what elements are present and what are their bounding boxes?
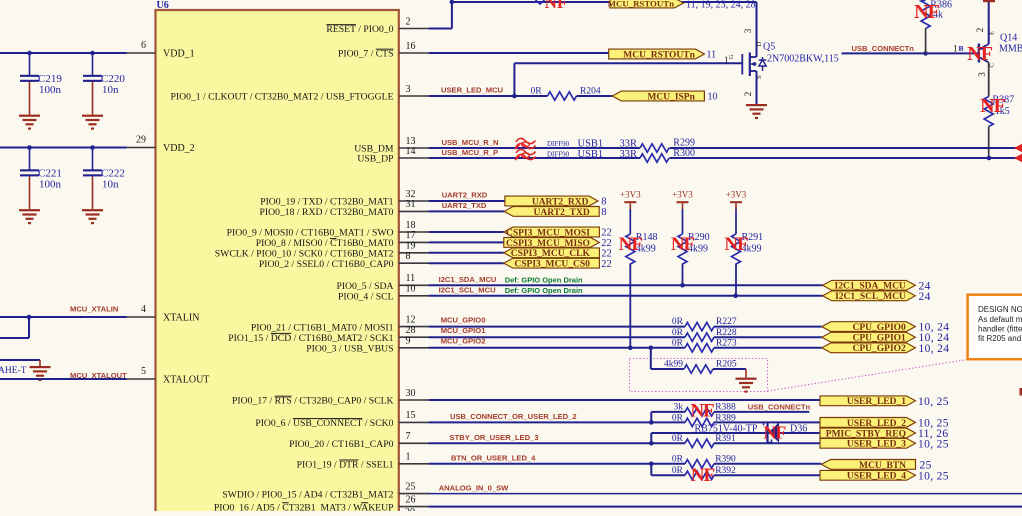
resistor R290 4k99 (NF) bbox=[678, 209, 710, 285]
svg-text:28: 28 bbox=[406, 325, 416, 336]
svg-text:MCU_XTALIN: MCU_XTALIN bbox=[70, 305, 118, 314]
net label USB_CONNECTn (stub) bbox=[748, 403, 811, 412]
ground (R205) bbox=[736, 369, 757, 393]
svg-text:+3V3: +3V3 bbox=[620, 190, 641, 200]
sheet number 25 bbox=[920, 459, 932, 471]
wire pin MCU_GPIO0 bbox=[429, 326, 822, 328]
differential pair mark DIFF90 (row 14) bbox=[515, 149, 637, 160]
svg-text:USER_LED_2: USER_LED_2 bbox=[847, 419, 906, 429]
sheet number 11 bbox=[707, 50, 717, 61]
pin 4 XTALIN bbox=[125, 304, 200, 324]
svg-text:E: E bbox=[989, 31, 996, 35]
wire riser to R388 bbox=[651, 412, 685, 423]
svg-text:CSPI3_MCU_CLK: CSPI3_MCU_CLK bbox=[511, 249, 591, 259]
svg-text:NF: NF bbox=[690, 401, 714, 422]
svg-text:PIO0_8 / MISO0 / CT16B0_MAT0: PIO0_8 / MISO0 / CT16B0_MAT0 bbox=[256, 238, 394, 249]
svg-text:PIO0_18 / RXD / CT32B0_MAT0: PIO0_18 / RXD / CT32B0_MAT0 bbox=[259, 207, 393, 218]
svg-text:NF: NF bbox=[691, 465, 715, 486]
tag CPU_GPIO0 bbox=[822, 322, 916, 333]
sheet numbers 10, 25 bbox=[918, 438, 949, 450]
NF mark on R148 bbox=[619, 234, 643, 255]
svg-text:RESET / PIO0_0: RESET / PIO0_0 bbox=[326, 24, 393, 35]
wire pin MCU_GPIO2 bbox=[429, 346, 822, 351]
svg-text:22: 22 bbox=[601, 238, 612, 249]
resistor R386 4k (NF, cut at top) bbox=[921, 0, 952, 53]
annotation Def: GPIO Open Drain (SCL) bbox=[505, 286, 583, 295]
wire pin1 BTN_OR_USER_LED_4 bbox=[429, 462, 685, 467]
tag PMIC_STBY_REQ bbox=[820, 428, 916, 439]
svg-text:MCU_GPIO1: MCU_GPIO1 bbox=[441, 326, 487, 335]
wire VDD_2 rail bbox=[0, 145, 127, 150]
pin 15 bbox=[255, 410, 429, 429]
resistor R273 0R bbox=[672, 338, 737, 352]
pin 25 bbox=[222, 481, 429, 500]
tag MCU_BTN bbox=[822, 460, 916, 471]
net label MCU_GPIO1 bbox=[441, 326, 487, 335]
sheet numbers 10, 25 bbox=[918, 417, 949, 429]
net label ANALOG_IN_0_SW bbox=[439, 484, 509, 493]
net label MCU_XTALOUT bbox=[70, 371, 127, 380]
svg-text:SWDIO / PIO0_15 / AD4 / CT32B1: SWDIO / PIO0_15 / AD4 / CT32B1_MAT2 bbox=[222, 489, 393, 500]
svg-text:18: 18 bbox=[406, 220, 416, 231]
pin 3 bbox=[170, 84, 429, 103]
pin 20 (cut off at bottom) bbox=[405, 507, 415, 516]
svg-text:CSPI3_MCU_MOSI: CSPI3_MCU_MOSI bbox=[506, 228, 590, 238]
svg-text:USB1: USB1 bbox=[578, 138, 604, 149]
cut-off tag tip at right edge bbox=[1020, 388, 1022, 396]
pin 5 XTALOUT bbox=[125, 366, 210, 386]
resistor R148 4k99 (NF) bbox=[626, 209, 658, 348]
resistor R390 0R bbox=[672, 454, 822, 468]
svg-text:G: G bbox=[728, 54, 735, 59]
svg-text:CSPI3_MCU_CS0: CSPI3_MCU_CS0 bbox=[514, 260, 590, 270]
svg-text:PIO0_19 / TXD / CT32B0_MAT1: PIO0_19 / TXD / CT32B0_MAT1 bbox=[260, 197, 393, 208]
svg-text:DESIGN NOTE:: DESIGN NOTE: bbox=[978, 305, 1022, 314]
svg-text:2: 2 bbox=[743, 92, 753, 97]
svg-text:14: 14 bbox=[406, 146, 416, 157]
svg-text:PIO0_16 / AD5 / CT32B1_MAT3 /: PIO0_16 / AD5 / CT32B1_MAT3 / WAKEUP bbox=[214, 502, 394, 511]
svg-text:10n: 10n bbox=[102, 179, 119, 191]
svg-text:31: 31 bbox=[406, 199, 416, 210]
tag CPU_GPIO1 bbox=[822, 332, 916, 343]
svg-text:Def: GPIO Open Drain: Def: GPIO Open Drain bbox=[505, 275, 583, 284]
svg-text:PIO0_21 / CT16B1_MAT0 / MOSI1: PIO0_21 / CT16B1_MAT0 / MOSI1 bbox=[251, 322, 394, 333]
pin 10 bbox=[338, 284, 430, 303]
Q14 pin number 2 (emitter) bbox=[975, 28, 996, 35]
svg-text:MCU_GPIO2: MCU_GPIO2 bbox=[441, 337, 486, 346]
resistor R391 0R bbox=[672, 434, 820, 448]
wire MCU_XTALIN bbox=[0, 315, 127, 338]
net label USB_MCU_R_N bbox=[442, 138, 499, 147]
svg-text:2N7002BKW,115: 2N7002BKW,115 bbox=[767, 54, 839, 65]
svg-text:PIO0_6 / USB_CONNECT / SCK0: PIO0_6 / USB_CONNECT / SCK0 bbox=[255, 418, 393, 429]
svg-text:0R: 0R bbox=[672, 328, 684, 338]
capacitor C219 100n bbox=[19, 53, 62, 130]
resistor R291 4k99 (NF) bbox=[732, 209, 764, 296]
svg-text:0R: 0R bbox=[530, 86, 542, 96]
wire RESET net pin2 to top rail bbox=[429, 0, 454, 28]
net label MCU_GPIO0 bbox=[441, 315, 486, 324]
sheet number 8 bbox=[601, 197, 606, 208]
sheet numbers 11, 26 bbox=[918, 428, 948, 440]
svg-text:9: 9 bbox=[406, 336, 411, 347]
design note box bbox=[968, 295, 1022, 360]
D36 part number RB751V-40-TP bbox=[695, 424, 758, 435]
svg-text:MCU_ISPn: MCU_ISPn bbox=[647, 92, 695, 102]
power bar (Q14 emitter supply) bbox=[983, 0, 995, 2]
svg-text:DIFF90: DIFF90 bbox=[547, 140, 570, 148]
sheet number 22 bbox=[601, 259, 612, 270]
svg-text:D: D bbox=[756, 41, 763, 46]
svg-text:1: 1 bbox=[406, 452, 411, 463]
svg-text:10: 10 bbox=[708, 92, 718, 103]
net label USB_CONNECT_OR_USER_LED_2 bbox=[450, 412, 577, 421]
svg-text:10, 25: 10, 25 bbox=[918, 438, 949, 450]
sheet numbers 10, 25 bbox=[918, 470, 949, 482]
svg-text:0R: 0R bbox=[672, 434, 684, 444]
svg-text:26: 26 bbox=[406, 494, 416, 505]
off-sheet arrow (row 13) bbox=[1014, 144, 1022, 152]
svg-text:3: 3 bbox=[977, 72, 987, 77]
sheet number 8 bbox=[601, 207, 606, 218]
pin 26 bbox=[214, 494, 430, 513]
power +3V3 (R290) bbox=[672, 190, 693, 210]
svg-text:25: 25 bbox=[406, 481, 416, 492]
capacitor C220 10n bbox=[82, 53, 125, 130]
IC U6 reference designator bbox=[157, 0, 169, 11]
svg-text:USB_CONNECTn: USB_CONNECTn bbox=[852, 44, 915, 53]
svg-text:17: 17 bbox=[406, 230, 416, 241]
svg-text:R228: R228 bbox=[716, 328, 737, 338]
resistor (cut off at top) with NF bbox=[536, 0, 568, 12]
wire to tag CSPI3_MCU_CS0 bbox=[429, 262, 504, 264]
ground (crystal) bbox=[30, 360, 51, 381]
svg-text:PIO0_17 / RTS / CT32B0_CAP0 /: PIO0_17 / RTS / CT32B0_CAP0 / SCLK bbox=[232, 396, 393, 407]
svg-text:10, 25: 10, 25 bbox=[918, 470, 949, 482]
D36 designator bbox=[790, 424, 807, 435]
svg-text:20: 20 bbox=[405, 507, 415, 511]
svg-text:2: 2 bbox=[406, 16, 411, 27]
wire riser to Q5 gate bbox=[514, 63, 742, 96]
net label I2C1_SDA_MCU bbox=[439, 275, 497, 284]
transistor Q14 MMBT PNP (NF) bbox=[979, 2, 989, 97]
svg-text:USB1: USB1 bbox=[578, 149, 604, 160]
wire pin MCU_GPIO1 bbox=[429, 336, 822, 338]
pin 7 bbox=[289, 431, 430, 450]
wire pin10 I2C1_SCL_MCU bbox=[429, 294, 823, 299]
svg-text:CSPI3_MCU_MISO: CSPI3_MCU_MISO bbox=[506, 239, 590, 249]
resistor R299 33R bbox=[640, 138, 695, 153]
svg-text:11: 11 bbox=[707, 50, 717, 61]
svg-text:USB_MCU_R_P: USB_MCU_R_P bbox=[442, 148, 499, 157]
resistor R205 4k99 bbox=[664, 359, 737, 373]
svg-text:UART2_TXD: UART2_TXD bbox=[534, 208, 590, 218]
svg-text:MCU_BTN: MCU_BTN bbox=[859, 461, 906, 471]
svg-text:USER_LED_MCU: USER_LED_MCU bbox=[441, 85, 504, 94]
tag UART2_RXD bbox=[505, 196, 598, 207]
svg-text:USER_LED_4: USER_LED_4 bbox=[847, 472, 906, 482]
svg-text:MCU_RSTOUTn: MCU_RSTOUTn bbox=[623, 50, 695, 60]
wire pin11 I2C1_SDA_MCU bbox=[429, 283, 823, 288]
svg-text:U6: U6 bbox=[157, 0, 169, 11]
svg-text:NF: NF bbox=[914, 1, 939, 23]
svg-text:I2C1_SDA_MCU: I2C1_SDA_MCU bbox=[439, 275, 497, 284]
tag MCU_ISPn bbox=[612, 91, 704, 102]
resistor R388 3k (NF) bbox=[674, 402, 810, 416]
wire to tag CSPI3_MCU_CLK bbox=[429, 252, 504, 254]
resistor R228 0R bbox=[672, 328, 737, 342]
svg-text:PIO0_9 / MOSI0 / CT16B0_MAT1 /: PIO0_9 / MOSI0 / CT16B0_MAT1 / SWO bbox=[227, 228, 394, 239]
tag USER_LED_3 bbox=[820, 438, 916, 449]
resistor R300 33R bbox=[640, 148, 695, 162]
sheet number 22 bbox=[601, 228, 612, 239]
tag CSPI3_MCU_CS0 bbox=[504, 258, 600, 269]
wire pin3 USER_LED_MCU bbox=[429, 94, 548, 99]
wire USB_MCU_R_P (pin14) bbox=[429, 156, 1022, 161]
svg-text:B: B bbox=[959, 44, 964, 53]
svg-text:I2C1_SDA_MCU: I2C1_SDA_MCU bbox=[835, 282, 906, 292]
svg-text:10: 10 bbox=[406, 284, 416, 295]
sheet numbers 10, 24 bbox=[919, 343, 950, 355]
sheet number 24 bbox=[919, 280, 931, 292]
Q14 pin number 1 (base) bbox=[953, 44, 964, 54]
svg-text:NF: NF bbox=[763, 423, 786, 443]
svg-text:+3V3: +3V3 bbox=[726, 190, 747, 200]
tag MCU_RSTOUTn bbox=[609, 49, 705, 60]
svg-text:R300: R300 bbox=[673, 148, 695, 159]
svg-text:5: 5 bbox=[141, 366, 146, 377]
svg-text:4k99: 4k99 bbox=[664, 359, 683, 369]
net label UART2_RXD bbox=[442, 191, 488, 200]
svg-text:I2C1_SCL_MCU: I2C1_SCL_MCU bbox=[835, 292, 906, 302]
svg-text:XTALOUT: XTALOUT bbox=[163, 375, 209, 386]
svg-text:10n: 10n bbox=[102, 84, 119, 96]
pin 31 bbox=[259, 199, 429, 218]
svg-text:NF: NF bbox=[671, 234, 695, 255]
diode D36 RB751V-40-TP (NF) bbox=[764, 422, 780, 442]
svg-text:19: 19 bbox=[406, 241, 416, 252]
sheet number 24 bbox=[919, 291, 931, 303]
wire riser pin7 to PMIC row bbox=[650, 433, 652, 443]
resistor R204 0R bbox=[530, 86, 612, 100]
wire VDD_1 rail bbox=[0, 51, 127, 56]
resistor R389 0R bbox=[672, 413, 820, 426]
svg-text:PIO0_20 / CT16B1_CAP0: PIO0_20 / CT16B1_CAP0 bbox=[289, 439, 394, 450]
resistor R392 0R (NF) bbox=[672, 466, 820, 480]
svg-text:As default mou: As default mou bbox=[978, 315, 1022, 324]
annotation Def: GPIO Open Drain (SDA) bbox=[505, 275, 583, 284]
svg-text:Q14: Q14 bbox=[1000, 33, 1017, 44]
tag CSPI3_MCU_MISO bbox=[504, 238, 600, 249]
svg-text:MMBT3906: MMBT3906 bbox=[999, 44, 1022, 55]
Q5 pin number 2 (source) bbox=[743, 75, 763, 96]
wire USB_MCU_R_N (pin13) bbox=[429, 147, 1022, 149]
pin 28 bbox=[228, 325, 430, 344]
net label MCU_GPIO2 bbox=[441, 337, 486, 346]
svg-text:USB_MCU_R_N: USB_MCU_R_N bbox=[442, 138, 499, 147]
svg-text:MCU_RSTOUTn: MCU_RSTOUTn bbox=[608, 0, 674, 8]
svg-text:XTALIN: XTALIN bbox=[163, 313, 199, 324]
net label USB_MCU_R_P bbox=[442, 148, 499, 157]
svg-text:R204: R204 bbox=[580, 86, 601, 96]
svg-text:8: 8 bbox=[406, 251, 411, 262]
svg-text:NF: NF bbox=[980, 95, 1005, 117]
NF mark on R291 bbox=[724, 234, 748, 255]
svg-text:AHE-T: AHE-T bbox=[0, 366, 27, 376]
transistor Q5 2N7002BKW,115 N-MOSFET bbox=[742, 2, 766, 104]
capacitor C222 10n bbox=[82, 148, 125, 225]
svg-text:ANALOG_IN_0_SW: ANALOG_IN_0_SW bbox=[439, 484, 509, 493]
sheet number 22 bbox=[601, 249, 612, 260]
svg-text:6: 6 bbox=[141, 40, 146, 51]
tag I2C1_SDA_MCU bbox=[823, 280, 916, 291]
differential pair mark DIFF90 (row 13) bbox=[515, 138, 637, 149]
net label MCU_XTALIN bbox=[70, 305, 118, 314]
svg-text:VDD_2: VDD_2 bbox=[163, 143, 195, 154]
wire pin30 to USER_LED_1 tag bbox=[429, 399, 820, 401]
svg-text:3k: 3k bbox=[674, 402, 684, 412]
wire pin7 STBY_OR_USER_LED_3 bbox=[429, 441, 685, 446]
svg-text:PIO0_5 / SDA: PIO0_5 / SDA bbox=[336, 281, 393, 292]
Q5 designator and part number bbox=[763, 42, 839, 65]
resistor R227 0R bbox=[672, 317, 737, 331]
svg-text:SWCLK / PIO0_10 / SCK0 / CT16B: SWCLK / PIO0_10 / SCK0 / CT16B0_MAT2 bbox=[215, 249, 394, 260]
svg-text:0R: 0R bbox=[672, 317, 684, 327]
svg-text:PIO0_2 / SSEL0 / CT16B0_CAP0: PIO0_2 / SSEL0 / CT16B0_CAP0 bbox=[259, 259, 394, 270]
IC U6 body (microcontroller) bbox=[156, 10, 399, 516]
tag MCU_RSTOUTn (cut off at top) bbox=[608, 0, 684, 8]
svg-text:0R: 0R bbox=[672, 466, 684, 476]
pin 30 bbox=[232, 388, 430, 407]
svg-text:29: 29 bbox=[136, 135, 146, 146]
svg-text:33R: 33R bbox=[620, 138, 638, 149]
svg-text:NF: NF bbox=[545, 0, 568, 12]
svg-text:PIO0_3 / USB_VBUS: PIO0_3 / USB_VBUS bbox=[306, 344, 393, 355]
svg-text:32: 32 bbox=[406, 189, 416, 200]
pin 12 bbox=[251, 314, 430, 333]
svg-text:NF: NF bbox=[967, 43, 992, 65]
wire crystal ground branch bbox=[0, 359, 40, 361]
svg-text:handler (fitted: handler (fitted bbox=[978, 325, 1022, 334]
pin 29 VDD_2 bbox=[125, 135, 195, 155]
tag UART2_TXD bbox=[504, 207, 599, 218]
net label BTN_OR_USER_LED_4 bbox=[451, 453, 536, 462]
svg-text:16: 16 bbox=[406, 41, 416, 52]
tag USER_LED_1 bbox=[820, 396, 916, 407]
svg-text:11: 11 bbox=[406, 273, 416, 284]
net label UART2_TXD bbox=[442, 201, 487, 210]
NF mark on D36 bbox=[763, 423, 786, 443]
svg-text:1: 1 bbox=[953, 44, 958, 54]
wire pin31 UART2_TXD bbox=[429, 210, 504, 212]
svg-text:fit R205 and R: fit R205 and R bbox=[978, 334, 1022, 343]
svg-text:100n: 100n bbox=[39, 179, 62, 191]
net label USB_CONNECTn bbox=[852, 44, 915, 53]
svg-text:R205: R205 bbox=[716, 359, 737, 369]
svg-text:PIO0_1 / CLKOUT / CT32B0_MAT2: PIO0_1 / CLKOUT / CT32B0_MAT2 / USB_FTOG… bbox=[170, 92, 393, 103]
Q14 pin number 3 (collector) bbox=[977, 63, 996, 76]
Q14 designator and part number (cut at right) bbox=[999, 33, 1022, 55]
svg-text:+3V3: +3V3 bbox=[672, 190, 693, 200]
svg-text:100n: 100n bbox=[39, 84, 62, 96]
svg-text:33R: 33R bbox=[620, 149, 638, 160]
svg-text:30: 30 bbox=[406, 388, 416, 399]
net label I2C1_SCL_MCU bbox=[439, 286, 496, 295]
tag I2C1_SCL_MCU bbox=[823, 291, 916, 302]
sheet numbers 10, 24 bbox=[919, 322, 950, 334]
svg-text:BTN_OR_USER_LED_4: BTN_OR_USER_LED_4 bbox=[451, 453, 536, 462]
capacitor C221 100n bbox=[19, 148, 62, 225]
Q5 pin number 1 (gate) bbox=[724, 54, 735, 65]
Q5 pin number 3 (drain) bbox=[743, 28, 763, 46]
wire USB_CONNECTn bbox=[842, 51, 979, 56]
NF mark on Q14 bbox=[967, 43, 992, 65]
crystal part number AHE-T (cut) bbox=[0, 366, 27, 376]
svg-text:USB_DP: USB_DP bbox=[357, 154, 393, 165]
wire MCU_XTALOUT bbox=[0, 378, 127, 380]
sheet numbers 11, 19, 23, 24, 28 bbox=[686, 0, 756, 11]
tag CPU_GPIO2 bbox=[822, 343, 916, 354]
sheet numbers 10, 24 bbox=[919, 332, 950, 344]
svg-text:R299: R299 bbox=[673, 138, 695, 149]
svg-text:PIO0_7 / CTS: PIO0_7 / CTS bbox=[338, 49, 393, 60]
wire riser to R392 row bbox=[651, 464, 685, 476]
svg-text:PIO1_15 / DCD / CT16B0_MAT2 /: PIO1_15 / DCD / CT16B0_MAT2 / SCK1 bbox=[228, 333, 393, 344]
NF mark on R388 bbox=[690, 401, 714, 422]
pin 9 bbox=[306, 336, 430, 355]
svg-text:UART2_RXD: UART2_RXD bbox=[532, 197, 589, 207]
tag CSPI3_MCU_CLK bbox=[504, 248, 600, 259]
resistor R387 1k5 (NF) bbox=[984, 95, 1014, 159]
svg-text:NF: NF bbox=[619, 234, 643, 255]
svg-text:4: 4 bbox=[141, 304, 146, 315]
NF mark on R387 bbox=[980, 95, 1005, 117]
svg-text:10, 25: 10, 25 bbox=[918, 396, 949, 408]
svg-text:CPU_GPIO0: CPU_GPIO0 bbox=[852, 323, 906, 333]
pin 2 bbox=[326, 16, 429, 35]
svg-text:UART2_TXD: UART2_TXD bbox=[442, 201, 487, 210]
pin 6 VDD_1 bbox=[125, 40, 195, 60]
svg-text:22: 22 bbox=[601, 259, 612, 270]
svg-text:7: 7 bbox=[406, 431, 411, 442]
ground (Q5 source) bbox=[746, 104, 767, 119]
pin 14 bbox=[357, 146, 429, 165]
wire pin15 USB_CONNECT_OR_USER_LED_2 bbox=[429, 420, 685, 425]
svg-text:22: 22 bbox=[601, 249, 612, 260]
svg-text:MCU_XTALOUT: MCU_XTALOUT bbox=[70, 371, 127, 380]
dashed option box bbox=[630, 359, 768, 392]
svg-text:I2C1_SCL_MCU: I2C1_SCL_MCU bbox=[439, 286, 496, 295]
svg-text:S: S bbox=[756, 75, 763, 79]
sheet number 10 bbox=[708, 92, 718, 103]
NF mark on R386 bbox=[914, 1, 939, 23]
wire top rail to Q5 drain bbox=[452, 1, 757, 3]
design note text bbox=[978, 305, 1022, 343]
svg-text:VDD_1: VDD_1 bbox=[163, 49, 195, 60]
pin 19 bbox=[215, 241, 430, 260]
svg-text:UART2_RXD: UART2_RXD bbox=[442, 191, 488, 200]
net label STBY_OR_USER_LED_3 bbox=[450, 433, 539, 442]
svg-text:3: 3 bbox=[743, 28, 753, 33]
pin 8 bbox=[259, 251, 430, 270]
pin 18 bbox=[227, 220, 430, 239]
svg-text:STBY_OR_USER_LED_3: STBY_OR_USER_LED_3 bbox=[450, 433, 539, 442]
pin 13 bbox=[354, 136, 430, 155]
wire to tag CSPI3_MCU_MOSI bbox=[429, 231, 504, 233]
wire pin25 ANALOG_IN_0_SW bbox=[429, 493, 1022, 495]
svg-text:R227: R227 bbox=[716, 317, 737, 327]
svg-text:NF: NF bbox=[724, 234, 748, 255]
